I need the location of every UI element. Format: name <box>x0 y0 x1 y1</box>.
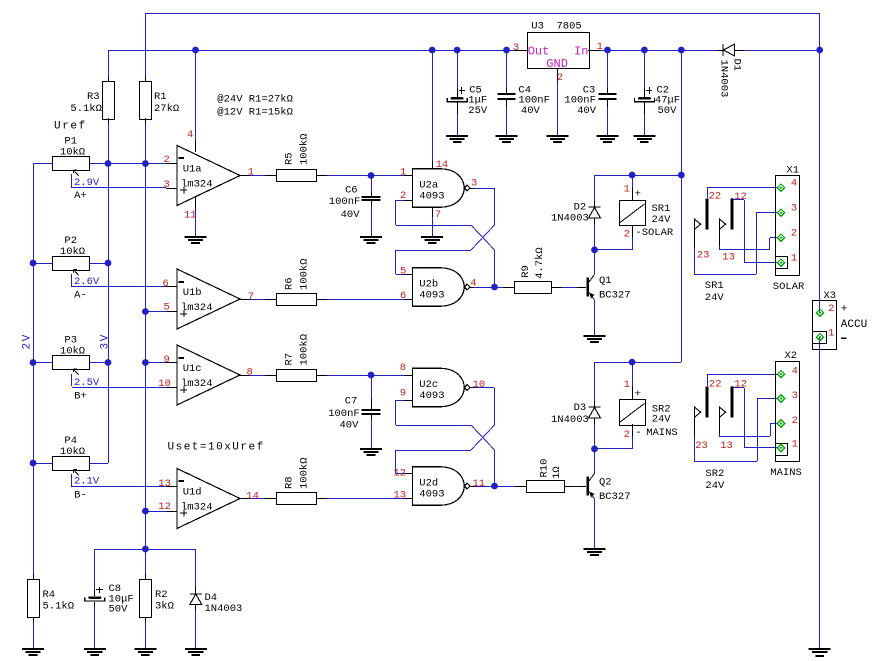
svg-text:7805: 7805 <box>557 21 582 33</box>
svg-text:X2: X2 <box>785 350 798 362</box>
svg-text:2: 2 <box>164 154 170 166</box>
svg-text:1: 1 <box>248 166 254 178</box>
svg-text:12: 12 <box>734 191 747 203</box>
svg-text:4: 4 <box>792 365 798 377</box>
svg-text:100kΩ: 100kΩ <box>298 457 310 489</box>
svg-text:5.1kΩ: 5.1kΩ <box>70 103 102 115</box>
svg-text:11: 11 <box>473 478 486 490</box>
svg-text:Uset=10xUref: Uset=10xUref <box>168 442 265 454</box>
svg-text:R8: R8 <box>283 476 295 489</box>
svg-text:9: 9 <box>164 354 170 366</box>
svg-text:24V: 24V <box>652 214 672 226</box>
svg-text:2: 2 <box>792 415 798 427</box>
svg-text:MAINS: MAINS <box>770 467 802 479</box>
svg-text:B+: B+ <box>74 391 87 403</box>
svg-text:10: 10 <box>473 379 486 391</box>
svg-text:R2: R2 <box>155 589 168 601</box>
svg-text:40V: 40V <box>521 105 541 117</box>
svg-text:3: 3 <box>792 390 798 402</box>
svg-text:13: 13 <box>720 440 733 452</box>
svg-text:14: 14 <box>246 490 259 502</box>
svg-text:100kΩ: 100kΩ <box>298 258 310 290</box>
svg-text:22: 22 <box>709 378 722 390</box>
svg-text:Uref: Uref <box>54 120 87 132</box>
svg-text:3: 3 <box>513 42 519 54</box>
svg-text:23: 23 <box>695 440 708 452</box>
svg-text:100nF: 100nF <box>329 196 361 208</box>
svg-text:3kΩ: 3kΩ <box>155 601 174 613</box>
svg-text:10kΩ: 10kΩ <box>60 246 85 258</box>
svg-text:4093: 4093 <box>419 390 444 402</box>
svg-text:R1: R1 <box>154 91 167 103</box>
svg-text:MAINS: MAINS <box>646 427 678 439</box>
svg-text:U1b: U1b <box>183 287 202 299</box>
svg-text:@24V R1=27kΩ: @24V R1=27kΩ <box>217 94 293 106</box>
svg-text:+: + <box>841 304 848 316</box>
svg-text:2.9V: 2.9V <box>74 177 100 189</box>
svg-text:40V: 40V <box>340 420 360 432</box>
svg-text:12: 12 <box>734 378 747 390</box>
svg-text:10kΩ: 10kΩ <box>60 147 85 159</box>
svg-text:SR1: SR1 <box>705 280 724 292</box>
svg-text:1: 1 <box>792 439 798 451</box>
svg-text:R9: R9 <box>520 265 532 278</box>
svg-text:2: 2 <box>624 429 630 441</box>
svg-text:1: 1 <box>400 166 406 178</box>
svg-text:U3: U3 <box>531 21 544 33</box>
svg-text:3V: 3V <box>100 333 112 349</box>
svg-text:A+: A+ <box>74 190 87 202</box>
svg-text:14: 14 <box>436 159 449 171</box>
svg-text:+: + <box>635 188 641 200</box>
svg-text:2.6V: 2.6V <box>74 276 100 288</box>
svg-text:10kΩ: 10kΩ <box>60 446 85 458</box>
svg-text:5: 5 <box>164 301 170 313</box>
svg-text:50V: 50V <box>658 105 678 117</box>
svg-text:22: 22 <box>709 190 722 202</box>
svg-text:@12V R1=15kΩ: @12V R1=15kΩ <box>217 107 293 119</box>
svg-text:24V: 24V <box>705 480 725 492</box>
svg-text:5.1kΩ: 5.1kΩ <box>43 601 75 613</box>
svg-text:25V: 25V <box>468 105 488 117</box>
svg-text:lm324: lm324 <box>181 501 213 513</box>
svg-text:6: 6 <box>400 290 406 302</box>
svg-text:R7: R7 <box>283 353 295 366</box>
svg-text:C7: C7 <box>345 396 358 408</box>
svg-text:5: 5 <box>400 266 406 278</box>
svg-text:4: 4 <box>470 277 476 289</box>
svg-text:12: 12 <box>158 501 171 513</box>
svg-text:7: 7 <box>435 209 441 221</box>
svg-text:40V: 40V <box>577 105 597 117</box>
svg-text:8: 8 <box>247 366 253 378</box>
svg-text:1: 1 <box>624 379 630 391</box>
svg-text:1: 1 <box>597 41 603 53</box>
svg-text:X1: X1 <box>786 164 799 176</box>
svg-text:3: 3 <box>791 202 797 214</box>
svg-text:B-: B- <box>74 490 87 502</box>
svg-text:Q1: Q1 <box>599 275 612 287</box>
svg-text:4093: 4093 <box>419 290 444 302</box>
svg-text:2: 2 <box>557 72 563 84</box>
svg-text:4093: 4093 <box>419 489 444 501</box>
svg-text:U1c: U1c <box>183 363 202 375</box>
svg-text:R5: R5 <box>283 152 295 165</box>
svg-text:100kΩ: 100kΩ <box>298 334 310 366</box>
svg-text:-SOLAR: -SOLAR <box>635 227 674 239</box>
svg-text:2: 2 <box>400 190 406 202</box>
svg-text:BC327: BC327 <box>599 289 631 301</box>
svg-text:2.5V: 2.5V <box>74 377 100 389</box>
svg-text:lm324: lm324 <box>181 378 213 390</box>
svg-text:1N4003: 1N4003 <box>717 60 729 98</box>
svg-text:11: 11 <box>184 210 197 222</box>
svg-text:2: 2 <box>624 229 630 241</box>
svg-text:13: 13 <box>158 478 171 490</box>
svg-text:4: 4 <box>791 177 797 189</box>
svg-text:BC327: BC327 <box>599 491 631 503</box>
svg-text:1: 1 <box>828 327 834 339</box>
svg-text:4093: 4093 <box>419 191 444 203</box>
svg-text:3: 3 <box>164 179 170 191</box>
svg-text:4.7kΩ: 4.7kΩ <box>534 247 546 279</box>
svg-text:R4: R4 <box>43 589 56 601</box>
svg-text:1: 1 <box>791 252 797 264</box>
svg-text:ACCU: ACCU <box>841 319 867 331</box>
svg-text:6: 6 <box>163 278 169 290</box>
svg-text:SR2: SR2 <box>705 468 724 480</box>
svg-text:R3: R3 <box>87 91 100 103</box>
svg-text:lm324: lm324 <box>181 302 213 314</box>
svg-text:D3: D3 <box>574 402 587 414</box>
svg-text:24V: 24V <box>705 292 725 304</box>
svg-text:A-: A- <box>74 290 87 302</box>
svg-text:1N4003: 1N4003 <box>205 603 243 615</box>
svg-text:100nF: 100nF <box>328 408 360 420</box>
svg-text:2: 2 <box>791 227 797 239</box>
svg-text:X3: X3 <box>824 290 837 302</box>
svg-text:-: - <box>635 427 641 439</box>
svg-text:7: 7 <box>248 291 254 303</box>
svg-text:U1d: U1d <box>183 486 202 498</box>
svg-text:SOLAR: SOLAR <box>773 281 805 293</box>
svg-text:1: 1 <box>624 183 630 195</box>
svg-text:4: 4 <box>187 129 193 141</box>
svg-text:13: 13 <box>394 489 407 501</box>
svg-text:10kΩ: 10kΩ <box>60 346 85 358</box>
svg-text:12: 12 <box>394 468 407 480</box>
svg-text:9: 9 <box>400 388 406 400</box>
svg-text:3: 3 <box>471 178 477 190</box>
svg-text:1N4003: 1N4003 <box>551 414 589 426</box>
svg-text:1N4003: 1N4003 <box>551 212 589 224</box>
svg-text:8: 8 <box>400 362 406 374</box>
svg-text:Q2: Q2 <box>599 476 612 488</box>
svg-text:40V: 40V <box>341 209 361 221</box>
svg-text:27kΩ: 27kΩ <box>154 103 179 115</box>
svg-text:C6: C6 <box>345 184 358 196</box>
svg-text:13: 13 <box>722 252 735 264</box>
svg-text:100kΩ: 100kΩ <box>298 133 310 165</box>
svg-text:1Ω: 1Ω <box>551 466 563 479</box>
svg-text:+: + <box>635 388 641 400</box>
svg-text:GND: GND <box>546 57 568 71</box>
svg-text:50V: 50V <box>109 604 129 616</box>
svg-text:In: In <box>574 44 588 58</box>
svg-text:lm324: lm324 <box>181 178 213 190</box>
svg-text:2: 2 <box>828 303 834 315</box>
svg-text:23: 23 <box>697 250 710 262</box>
svg-text:2V: 2V <box>22 333 34 349</box>
svg-text:R6: R6 <box>283 277 295 290</box>
svg-text:U1a: U1a <box>183 163 202 175</box>
svg-text:D1: D1 <box>730 59 742 72</box>
svg-text:10: 10 <box>158 378 171 390</box>
svg-text:SR1: SR1 <box>652 203 671 215</box>
svg-text:24V: 24V <box>652 414 672 426</box>
svg-text:2.1V: 2.1V <box>74 476 100 488</box>
svg-text:R10: R10 <box>539 459 551 478</box>
